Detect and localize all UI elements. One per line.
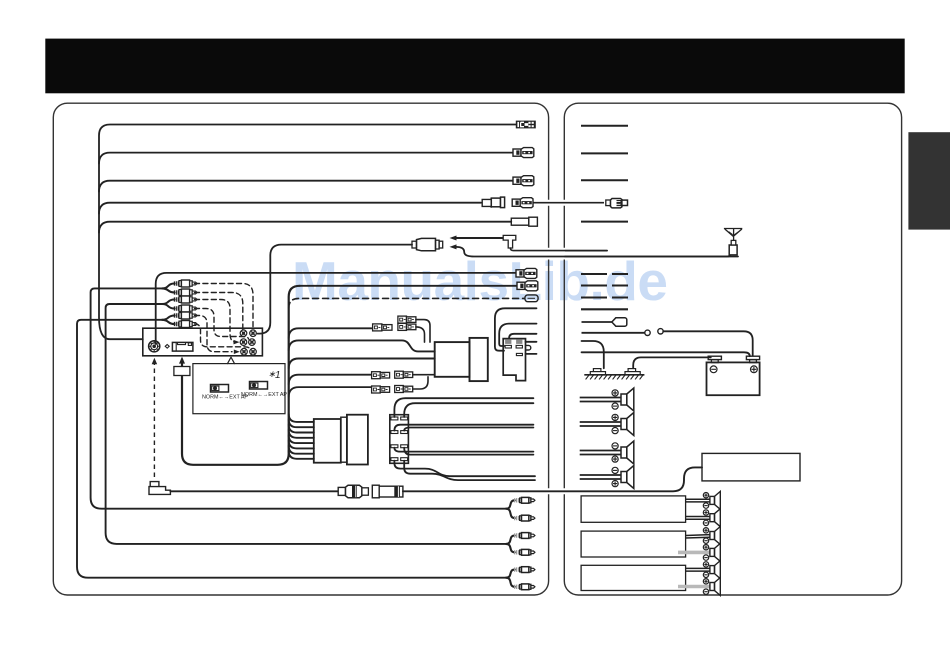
speaker L1 wires [580,397,621,399]
wire casings over borders [533,200,606,206]
connector line1 lug [516,121,536,129]
dashed wire from knob [153,361,155,480]
unit connector socket [172,342,193,351]
wire W3 [509,334,537,339]
connector line5 barrel [511,218,529,225]
connector line2 spade [513,149,521,156]
svg-text:1: 1 [275,370,281,381]
speaker R4 [710,548,715,556]
speaker block cells row 2 [391,431,398,434]
battery wire [582,352,750,356]
branch wire b3 [289,359,435,369]
vehicle connector pins [505,340,511,344]
option box [193,364,285,414]
option box pointer [228,357,235,363]
speaker block cells row 1 [391,417,398,420]
left panel border [53,103,548,595]
ground lug B [628,369,636,372]
connector line6 antenna barrel [412,241,417,248]
dashed path plug3 [195,300,237,343]
rca plug 1 [174,281,178,286]
speaker L3 wires [580,450,621,452]
box3 speaker wire b [678,585,710,589]
wire W5 [526,353,537,355]
battery body [707,362,760,395]
speaker block cells row 4 [391,458,398,461]
rca y-cable 1 split [162,284,174,293]
unit rca jack 3 [240,339,247,346]
stub dashed 2 [581,285,628,287]
speaker L4 wires [580,474,621,476]
speaker block cells row 3 [391,445,398,448]
amplifier box [702,453,800,481]
battery terminal post plus [746,356,759,359]
rca y-cable 1 feed down to bottom cable [91,288,507,508]
unit rca jack 5 [241,348,248,355]
connector line3 spade [513,177,521,184]
wire D2 to block [413,377,428,389]
speaker R1 [710,496,715,504]
battery plus mark [751,366,758,373]
connector lineY spade [517,282,525,289]
bottom rca plug y=586.8 [515,585,519,589]
unit rca jack 1 [240,330,247,337]
battery minus mark [710,366,717,373]
rca y-cable 2 feed down to bottom cable [106,304,507,544]
speaker R2 [710,514,715,522]
wire lineX from unit [156,273,516,344]
wire line2 [99,153,513,164]
dashed path plug2 [195,293,243,330]
connector mini plug [606,200,611,206]
arrow adapter bracket [503,235,516,248]
amp feed barrel 1 [338,487,345,495]
rca plug 3 [174,297,178,302]
iso block A [435,342,470,377]
wire line6 to antenna plug [258,245,413,334]
connector pair A [373,324,382,331]
antenna lead right [565,255,730,257]
wire adapter lead [510,248,607,251]
connector line4 barrel [482,198,491,207]
bottom rca y-split 3 [506,570,515,587]
stub solid thick [581,308,628,310]
rca plug 2 [174,290,178,295]
speaker pair4 wires [394,461,535,477]
harness arrow to unit [179,357,185,364]
unit rca jack 4 [249,339,256,346]
wire line1 + bundle to unit [99,125,516,340]
dashed path plug6 [195,324,250,349]
connector pair D2 [395,386,404,393]
head unit rear panel [143,328,263,356]
harness trunk vertical [182,286,300,465]
rca plug 6 [174,322,178,327]
bottom rca plug y=569.6 [515,567,519,571]
connector pair B1 [398,316,407,323]
rca y-cable 3 feed down to bottom cable [77,320,507,578]
connector pair C1 [372,372,381,379]
speaker box 2 [581,531,686,557]
stub line3 [581,179,628,181]
fuse symbol [612,318,627,326]
fuse wire [582,321,613,323]
antenna wire stub [565,250,607,252]
switch SW1 [211,385,229,393]
switch wire [582,332,645,334]
ground strip [584,374,644,376]
dashed path plug4 [195,309,249,340]
unit rca jack 6 [250,348,257,355]
box2 speaker wire a [686,534,710,537]
rca y-cable 2 split [162,300,174,309]
ground lug A [593,369,601,372]
branch wire b4 [289,375,372,385]
stub line5 [581,221,628,223]
speaker pair3 wires [394,448,533,452]
speaker box 1 [581,496,686,522]
vehicle connector latch [526,345,531,350]
wire W4 [526,341,537,343]
bottom rca plug y=500.3 [515,498,519,502]
box1 speaker wire a [686,498,710,500]
unit jack internal lead [155,328,157,341]
switch SW2 [250,382,268,390]
speaker L3 [621,447,627,458]
harness fan wires [289,414,314,459]
bottom rca plug y=535.5 [515,533,519,537]
stub line2 [581,152,628,154]
battery terminal post minus [708,356,721,359]
connector line4 plug [512,199,520,206]
vehicle connector body [503,339,525,381]
connector pair D1 [372,386,381,393]
unit rca jack 2 [250,330,257,337]
wire B2 to block [416,327,425,342]
wire switch to battery plus [663,331,753,355]
amp feed barrel 2 [372,485,379,498]
box1 speaker wire b [686,516,710,518]
speaker L2 wires [580,421,621,423]
branch wire b1 [289,328,372,338]
rca plug 5 [174,313,178,318]
header black bar [45,39,904,94]
iso block B [470,338,488,381]
L-plug [149,482,170,495]
switch contacts [645,330,650,335]
connector pair C2 [395,371,404,378]
bottom rca plug y=552.3 [515,550,519,554]
wire B1 to block [416,320,430,343]
unit diamond [165,345,169,349]
speaker box 3 [581,565,686,590]
svg-text:NORM←→EXT AP: NORM←→EXT AP [241,392,287,398]
wire antenna lead with arrow [456,247,738,257]
connector D housing [347,415,368,465]
wire line5 [99,222,511,233]
speaker connector block [390,415,409,464]
antenna mast [724,229,742,241]
bottom rca y-split 2 [506,536,515,553]
speaker R6 [710,583,715,591]
wire lineZ dashed [289,298,524,308]
amp feed wire to right panel [403,467,702,491]
side tab [908,132,950,229]
unit volume knob [149,341,160,352]
stub dashed 3 [581,297,628,299]
rca plug 4 [174,306,178,311]
connector C housing [314,419,341,463]
battery minus wire [633,357,711,368]
harness label box [174,367,190,376]
rca y-cable 3 split [162,316,174,325]
speaker pair2 wires [394,425,533,431]
wire line4 [99,203,481,214]
wire W2 [499,324,536,346]
branch wire b5 [289,387,372,397]
arrow to antenna plug 1 [456,237,503,239]
speaker pair1 wires [394,398,533,417]
wire C2 to block [413,374,435,376]
stub line1 [581,125,628,127]
speaker R3 [710,532,715,540]
wire lineY [300,285,517,287]
amp feed wire [170,490,338,492]
speaker L1 [621,394,627,405]
right panel border [564,103,901,595]
bottom rca y-split 1 [506,500,515,518]
wire W1 [495,308,537,350]
speaker L2 [621,419,627,430]
dashed path plug1 [195,284,254,330]
antenna plug [729,245,737,255]
branch wire b2 [289,340,435,351]
bottom rca plug y=518.1 [515,516,519,520]
dashed path plug5 [195,316,233,352]
wire line3 [99,181,513,192]
speaker R5 [710,566,715,574]
connector pair B2 [398,323,407,330]
box2 speaker wire b [678,551,710,555]
connector lineX spade [516,270,524,277]
connector lineZ sleeve [525,295,538,302]
speaker L4 [621,472,627,483]
stub dashed 1 [581,273,628,275]
box3 speaker wire a [686,567,710,569]
ground wire A [582,341,604,368]
